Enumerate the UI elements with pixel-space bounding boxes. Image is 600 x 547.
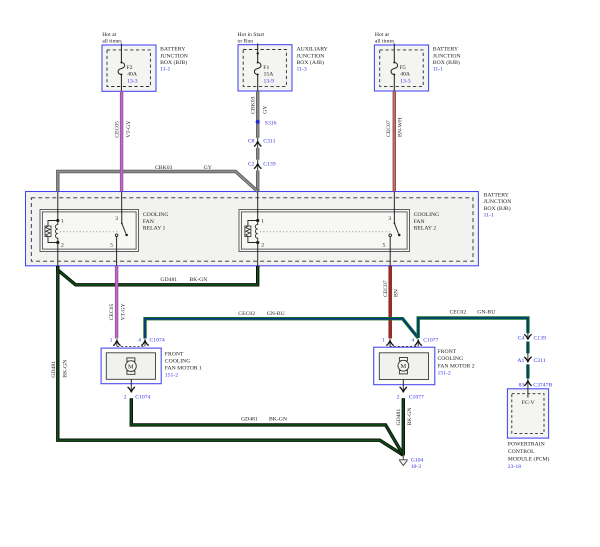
- svg-text:FAN: FAN: [414, 219, 425, 225]
- svg-text:5: 5: [110, 243, 113, 249]
- svg-text:JUNCTION: JUNCTION: [484, 199, 512, 205]
- svg-text:JUNCTION: JUNCTION: [433, 53, 461, 59]
- svg-text:5: 5: [383, 243, 386, 249]
- wire CEC07 BN-WH from F5 (red): [393, 91, 396, 191]
- fuse F5 40A: [391, 62, 398, 74]
- svg-text:40A: 40A: [127, 72, 138, 78]
- svg-text:F1: F1: [263, 65, 269, 71]
- motor 1 connector C1074 pin 4 arrow: [142, 339, 149, 346]
- svg-text:S316: S316: [265, 121, 277, 127]
- svg-text:C3747B: C3747B: [533, 382, 552, 388]
- battery junction box BJB (relay block): [26, 192, 479, 266]
- svg-text:CEC07: CEC07: [386, 120, 392, 137]
- relay 2 pin 5 lead: [389, 237, 391, 266]
- relay 1 pin 2 lead: [57, 243, 59, 266]
- relay 1 dotted actuation line: [60, 231, 120, 233]
- connector C139 arrow (C2): [254, 160, 261, 171]
- svg-text:or Run: or Run: [238, 39, 254, 45]
- svg-text:C1074: C1074: [150, 338, 165, 344]
- relay 2 pin junctions: [256, 219, 259, 222]
- svg-text:FAN: FAN: [143, 219, 154, 225]
- wire CEC07 BN relay 2 pin 5 to motor 2 (red): [389, 266, 392, 339]
- svg-text:FAN MOTOR 1: FAN MOTOR 1: [165, 366, 202, 372]
- svg-text:151-2: 151-2: [438, 370, 451, 376]
- svg-text:C139: C139: [263, 162, 275, 168]
- svg-text:1: 1: [61, 218, 64, 224]
- ground G104 symbol: [399, 455, 408, 465]
- wire F1 feed stub + fuse lead (thin black): [257, 44, 259, 92]
- svg-text:CEC05: CEC05: [115, 121, 121, 138]
- svg-text:GN-BU: GN-BU: [477, 309, 495, 315]
- svg-text:3: 3: [115, 216, 118, 222]
- wire CEC05 VT-GY from F2 (violet): [120, 91, 123, 191]
- motor 1 symbol M: [125, 358, 136, 374]
- svg-text:M: M: [128, 363, 134, 370]
- svg-text:11-1: 11-1: [160, 67, 170, 73]
- motor 2 connector dashed line: [390, 345, 419, 347]
- motor 1 connector C1074 pin 2 arrow (down): [128, 386, 135, 392]
- relay 2 dotted actuation line: [260, 231, 392, 233]
- connector C3747B arrow (83, up): [525, 378, 532, 386]
- relay 2 switch blade: [394, 222, 396, 224]
- svg-text:CONTROL: CONTROL: [508, 449, 535, 455]
- svg-text:GD481: GD481: [51, 361, 57, 378]
- relay 1 pin junctions: [56, 219, 59, 222]
- svg-text:CEC02: CEC02: [450, 309, 467, 315]
- relay 1 pin 3 lead: [121, 191, 123, 223]
- relay 1 resistor (parallel): [45, 221, 58, 243]
- svg-text:COOLING: COOLING: [438, 356, 464, 362]
- svg-text:2: 2: [261, 242, 264, 248]
- wire GD481 BK-GN motor 2 ground drop (green): [402, 398, 405, 455]
- svg-text:G104: G104: [411, 457, 424, 463]
- svg-text:GD481: GD481: [241, 417, 258, 423]
- svg-text:151-2: 151-2: [165, 373, 178, 379]
- motor 1 pin 2 lead: [130, 379, 132, 386]
- svg-text:GY: GY: [263, 106, 269, 114]
- svg-text:1: 1: [382, 337, 385, 343]
- svg-text:C1077: C1077: [423, 337, 438, 343]
- svg-text:GD481: GD481: [396, 409, 402, 426]
- svg-text:C1077: C1077: [409, 394, 424, 400]
- svg-text:A1: A1: [517, 358, 524, 364]
- motor 2 connector C1077 pin 2 arrow (down): [400, 386, 407, 392]
- svg-text:COOLING: COOLING: [165, 358, 191, 364]
- motor 2 pin 2 lead: [402, 380, 404, 387]
- powertrain control module PCM box: [507, 389, 548, 438]
- svg-text:11-1: 11-1: [484, 213, 494, 219]
- relay 1 switch blade: [121, 222, 123, 224]
- front cooling fan motor 1 box: [101, 348, 161, 384]
- motor 1 connector C1074 pin 1 arrow: [114, 339, 121, 346]
- wire CEC05 VT-GY relay 1 pin 5 to motor 1 (violet): [115, 266, 118, 339]
- svg-text:1: 1: [261, 218, 264, 224]
- svg-text:3: 3: [388, 216, 391, 222]
- svg-text:VT-GY: VT-GY: [126, 121, 132, 138]
- connector C139 arrow (C4, down): [525, 333, 532, 339]
- svg-text:CBK03: CBK03: [155, 165, 173, 171]
- svg-text:11-1: 11-1: [433, 67, 443, 73]
- svg-text:FAN MOTOR 2: FAN MOTOR 2: [438, 363, 475, 369]
- svg-text:23-18: 23-18: [508, 464, 521, 470]
- svg-text:all times: all times: [375, 39, 395, 45]
- fuse F2 40A: [118, 62, 125, 74]
- svg-text:CEC02: CEC02: [238, 311, 255, 317]
- svg-text:13-3: 13-3: [127, 78, 138, 84]
- svg-text:C2: C2: [248, 162, 255, 168]
- svg-text:BK-GN: BK-GN: [269, 417, 287, 423]
- svg-text:BOX (BJB): BOX (BJB): [484, 205, 511, 212]
- svg-text:F2: F2: [127, 65, 133, 71]
- relay 2 pin 5 contact: [389, 234, 392, 237]
- wire F2 feed stub + fuse lead (thin black): [120, 44, 122, 92]
- svg-text:BN-WH: BN-WH: [398, 118, 404, 137]
- svg-text:10-3: 10-3: [411, 464, 422, 470]
- relay 1 pin 1 lead: [57, 191, 59, 220]
- svg-text:M: M: [401, 363, 407, 370]
- svg-text:15A: 15A: [264, 72, 275, 78]
- svg-text:FRONT: FRONT: [438, 349, 457, 355]
- svg-text:BK-GN: BK-GN: [407, 407, 413, 425]
- battery junction box BJB (fuse F5): [374, 45, 428, 91]
- svg-text:BK-GN: BK-GN: [63, 360, 69, 378]
- PCM pin lead: [527, 387, 529, 398]
- wire GD481 BK-GN motor 1 ground run (green): [131, 398, 403, 455]
- svg-text:GD481: GD481: [160, 277, 177, 283]
- svg-text:FRONT: FRONT: [165, 351, 184, 357]
- relay 1 pin 5 lead: [116, 237, 118, 266]
- svg-text:BATTERY: BATTERY: [484, 193, 509, 199]
- svg-text:4: 4: [411, 337, 414, 343]
- svg-text:C4: C4: [518, 335, 525, 341]
- wire CBK03 GY branch to relay 1 pin 1 (gray): [58, 172, 258, 192]
- svg-text:C311: C311: [263, 139, 275, 145]
- relay 2 pin 2 lead: [257, 243, 259, 266]
- svg-text:13-3: 13-3: [400, 78, 411, 84]
- svg-text:MODULE (PCM): MODULE (PCM): [508, 456, 550, 463]
- relay 2 resistor (parallel): [245, 221, 258, 243]
- svg-text:GY: GY: [204, 165, 212, 171]
- splice S316: [256, 120, 260, 124]
- front cooling fan motor 2 box: [374, 347, 435, 385]
- svg-text:C311: C311: [534, 358, 546, 364]
- wire CEC02 GN-BU motor2 pin4 to PCM (green): [418, 318, 528, 378]
- svg-text:VT-GY: VT-GY: [120, 303, 126, 320]
- svg-text:4: 4: [138, 338, 141, 344]
- svg-text:JUNCTION: JUNCTION: [297, 53, 325, 59]
- svg-text:2: 2: [124, 395, 127, 401]
- motor 2 connector C1077 pin 4 arrow: [415, 339, 422, 346]
- cooling fan relay 2 box: [239, 210, 410, 252]
- svg-text:all times: all times: [102, 39, 122, 45]
- svg-text:C139: C139: [534, 335, 546, 341]
- svg-text:CEC07: CEC07: [383, 280, 389, 297]
- svg-text:C1074: C1074: [135, 395, 150, 401]
- wire GD481 BK-GN left vertical run to G104 (green): [58, 266, 404, 455]
- svg-text:BATTERY: BATTERY: [160, 47, 185, 53]
- svg-text:2: 2: [61, 242, 64, 248]
- wire F5 feed stub + fuse lead (thin black): [393, 44, 395, 92]
- motor 1 connector dashed line: [117, 345, 145, 347]
- svg-text:GN-BU: GN-BU: [267, 311, 285, 317]
- svg-text:1: 1: [110, 338, 113, 344]
- svg-text:Hot in Start: Hot in Start: [238, 32, 265, 38]
- svg-text:RELAY 2: RELAY 2: [414, 226, 437, 232]
- svg-text:2: 2: [397, 394, 400, 400]
- svg-text:POWERTRAIN: POWERTRAIN: [508, 442, 545, 448]
- relay 1 coil: [55, 221, 57, 243]
- relay 2 pin 3 lead: [393, 191, 395, 223]
- wire CEC02 GN-BU motor1 pin4 to motor2 pin4 (green): [145, 319, 418, 339]
- battery junction box BJB (fuse F2): [102, 45, 156, 91]
- svg-text:BK-GN: BK-GN: [189, 277, 207, 283]
- svg-text:COOLING: COOLING: [143, 212, 169, 218]
- svg-text:13-9: 13-9: [264, 78, 275, 84]
- svg-text:C8: C8: [248, 139, 255, 145]
- wire GD481 BK-GN relay grounds (green): [58, 266, 258, 285]
- svg-text:83: 83: [519, 382, 525, 388]
- svg-text:F5: F5: [400, 65, 406, 71]
- svg-text:11-3: 11-3: [297, 67, 307, 73]
- svg-text:FC-V: FC-V: [522, 400, 536, 406]
- svg-text:BOX (BJB): BOX (BJB): [160, 59, 187, 66]
- relay 1 pin 5 contact: [115, 234, 118, 237]
- fuse F1 15A: [254, 62, 261, 74]
- svg-text:BN: BN: [394, 289, 400, 297]
- connector C311 arrow (C8): [254, 138, 261, 148]
- svg-text:BOX (AJB): BOX (AJB): [297, 59, 324, 66]
- svg-text:40A: 40A: [400, 72, 411, 78]
- svg-text:CBK03: CBK03: [250, 96, 256, 114]
- svg-text:AUXILIARY: AUXILIARY: [297, 47, 328, 53]
- connector C311 arrow (A1, down): [525, 353, 532, 362]
- svg-text:JUNCTION: JUNCTION: [160, 53, 188, 59]
- motor 2 symbol M: [398, 358, 409, 374]
- svg-text:COOLING: COOLING: [414, 212, 440, 218]
- auxiliary junction box AJB (fuse F1): [238, 45, 292, 91]
- motor 2 connector C1077 pin 1 arrow: [387, 339, 394, 346]
- node inside AJB on F1 lead: [257, 52, 259, 54]
- svg-text:BATTERY: BATTERY: [433, 47, 458, 53]
- svg-text:RELAY 1: RELAY 1: [143, 226, 166, 232]
- svg-text:Hot at: Hot at: [375, 32, 389, 38]
- wire CBK03 GY vertical from F1 (gray): [256, 91, 259, 191]
- svg-text:CEC05: CEC05: [109, 303, 115, 320]
- cooling fan relay 1 box: [40, 210, 139, 252]
- relay 2 coil: [255, 221, 257, 243]
- svg-text:BOX (BJB): BOX (BJB): [433, 59, 460, 66]
- svg-text:Hot at: Hot at: [102, 32, 116, 38]
- relay 2 pin 1 lead: [257, 191, 259, 220]
